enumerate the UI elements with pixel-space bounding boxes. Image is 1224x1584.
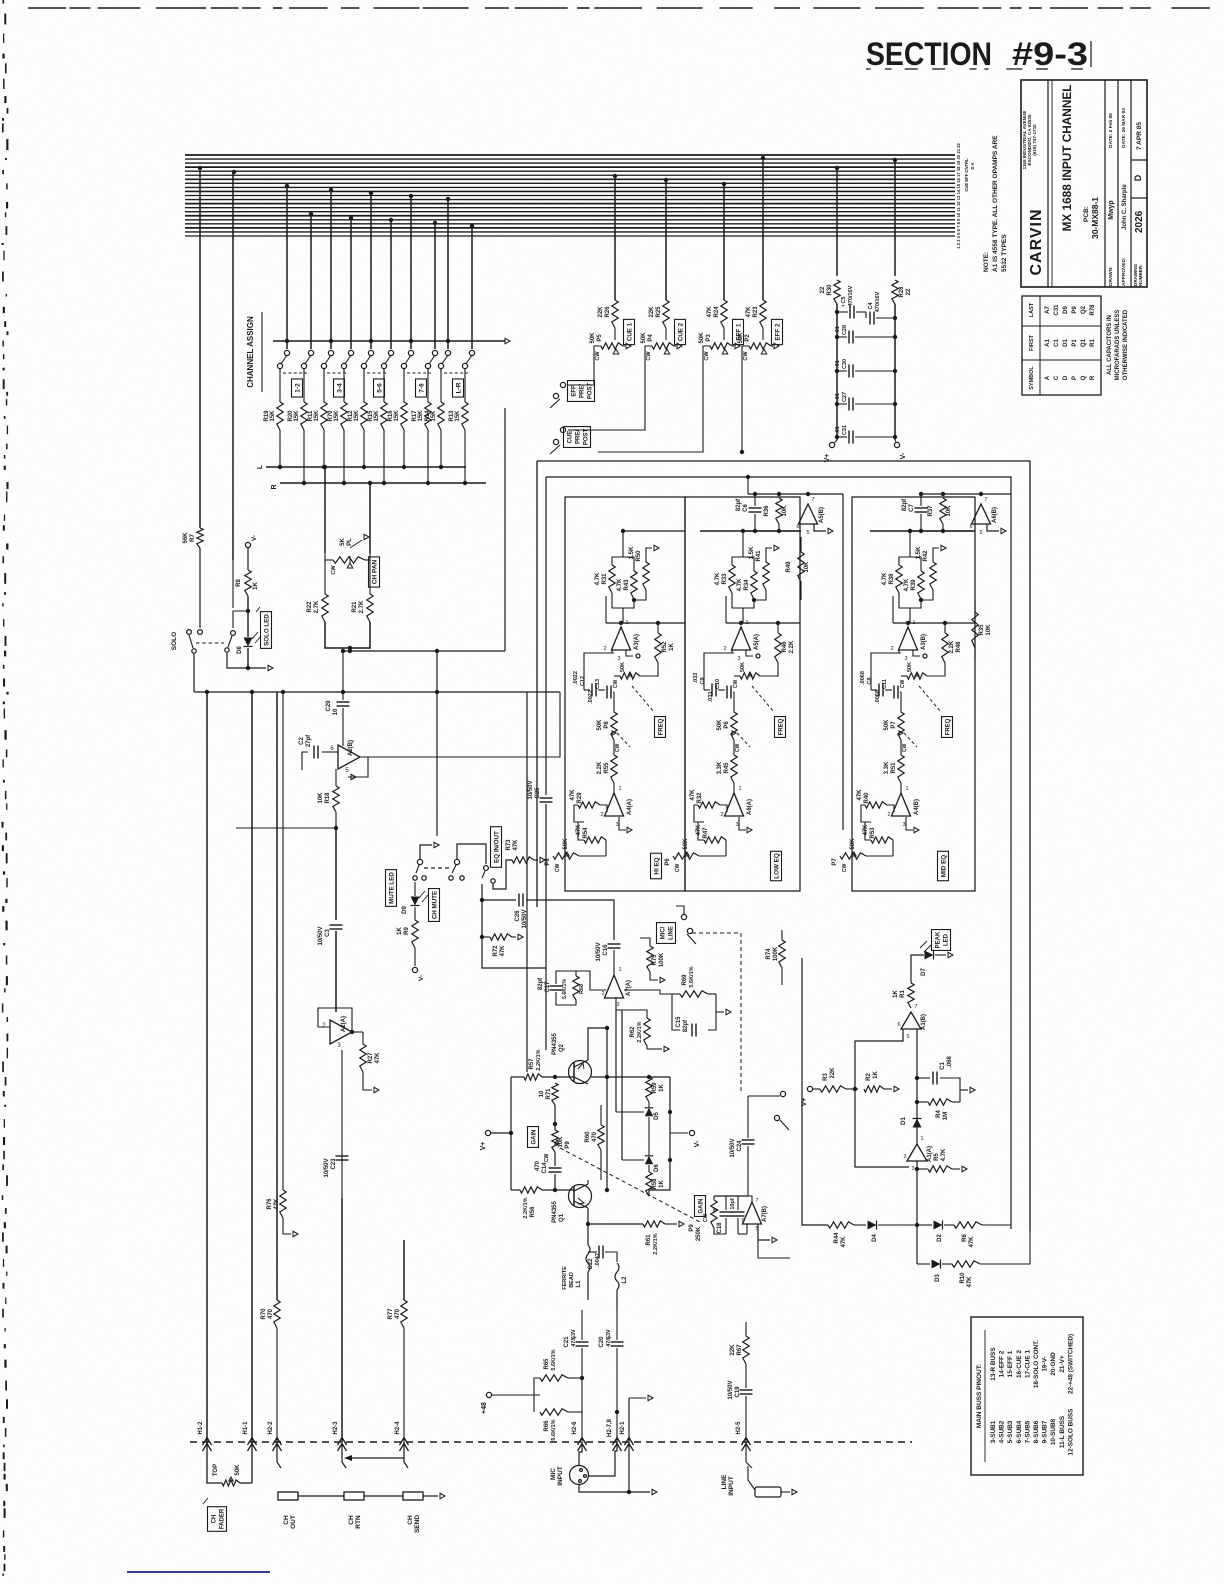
- op-amp A1(B): [901, 1012, 921, 1029]
- svg-text:CW: CW: [704, 351, 710, 361]
- svg-text:50K: 50K: [717, 719, 723, 731]
- svg-text:47K: 47K: [863, 824, 869, 836]
- svg-text:SOLO: SOLO: [171, 632, 178, 650]
- resistor R71 10: [552, 1083, 558, 1105]
- potentiometer FREQ trim HI EQ: [620, 673, 640, 679]
- svg-text:1K: 1K: [659, 1179, 665, 1187]
- svg-text:82pf: 82pf: [538, 977, 544, 990]
- capacitor C22 .0047: [598, 1246, 600, 1259]
- resistor R5 4.7K: [917, 1168, 928, 1170]
- svg-text:5-SUB3: 5-SUB3: [1007, 1420, 1014, 1443]
- switch S2 (3-4): [328, 350, 333, 355]
- led D9 (mute): [411, 897, 420, 906]
- capacitor C2 27pf: [313, 746, 315, 759]
- svg-text:15K: 15K: [334, 410, 340, 422]
- svg-text:CW: CW: [646, 351, 652, 361]
- svg-text:A1(A): A1(A): [927, 1146, 933, 1162]
- label box LOW EQ: [771, 851, 782, 880]
- svg-text:.0047: .0047: [595, 1253, 601, 1267]
- svg-text:.0022: .0022: [588, 690, 594, 704]
- resistor R53 47K: [871, 837, 893, 843]
- svg-text:V-: V-: [418, 975, 425, 981]
- svg-text:7: 7: [984, 497, 987, 503]
- svg-text:C31: C31: [842, 425, 848, 435]
- svg-text:P8: P8: [604, 721, 610, 729]
- wire: solo switch outputs: [246, 666, 250, 670]
- svg-text:R30: R30: [827, 284, 833, 296]
- label box CH MUTE: [429, 889, 440, 922]
- svg-text:LAST: LAST: [1029, 302, 1035, 317]
- potentiometer P8 50K: [613, 692, 615, 712]
- transistor Q1 PN4355: [569, 1185, 592, 1208]
- svg-text:CW: CW: [544, 1154, 550, 1163]
- svg-text:6: 6: [897, 1022, 900, 1028]
- svg-text:2: 2: [903, 1154, 906, 1160]
- legend box MAIN BUSS PINOUT: [971, 1317, 1083, 1475]
- assign switch label L-R: [453, 379, 464, 397]
- wire: channel assign buss tap 8: [433, 221, 437, 225]
- svg-text:PN4355: PN4355: [552, 1032, 558, 1054]
- wire: gain bracket: [510, 1077, 512, 1190]
- wire: eff1 send tap: [722, 182, 726, 186]
- svg-text:1: 1: [618, 786, 621, 792]
- op-amp A7(B): [743, 1202, 762, 1224]
- resistor R24 47K: [721, 300, 727, 328]
- svg-text:#9-3: #9-3: [1012, 36, 1088, 72]
- resistor R75 100K: [647, 946, 653, 972]
- svg-text:R21: R21: [352, 601, 358, 613]
- svg-text:R31: R31: [602, 573, 608, 585]
- svg-text:15K: 15K: [394, 410, 400, 422]
- svg-text:PRE/: PRE/: [580, 384, 586, 398]
- main buss (22 horizontal wires): [185, 154, 955, 156]
- svg-text:22-+48 (SWITCHED): 22-+48 (SWITCHED): [1067, 1334, 1074, 1394]
- svg-text:P9: P9: [565, 1141, 571, 1149]
- diode D6: [645, 1156, 653, 1164]
- svg-text:C5: C5: [841, 296, 847, 303]
- wire: MID EQ input rail: [908, 530, 975, 532]
- svg-text:MUTE LED: MUTE LED: [389, 872, 396, 904]
- svg-text:4.7K: 4.7K: [882, 572, 888, 585]
- svg-text:LINE: LINE: [721, 1474, 728, 1489]
- diode D2: [934, 1221, 943, 1230]
- capacitor C17 82pf: [550, 985, 563, 987]
- label box PEAK LED: [932, 930, 951, 951]
- svg-text:15K: 15K: [294, 410, 300, 422]
- op-amp A6(B): [972, 504, 991, 524]
- svg-text:C13: C13: [595, 679, 601, 689]
- svg-text:PCB:: PCB:: [1083, 206, 1090, 222]
- resistor R69 5.6K/1%: [680, 991, 708, 997]
- svg-text:50K: 50K: [597, 719, 603, 731]
- wire: solo cont drop: [232, 560, 234, 608]
- svg-text:50K: 50K: [740, 662, 746, 672]
- svg-text:.033: .033: [693, 673, 699, 684]
- resistor R70 470: [274, 1300, 280, 1328]
- wire: A1B pin5 down: [916, 1029, 918, 1144]
- svg-text:D9: D9: [1063, 306, 1069, 314]
- svg-text:CUE: CUE: [568, 431, 574, 444]
- resistor 2.2K R48: [942, 633, 948, 663]
- svg-text:R36: R36: [764, 505, 770, 517]
- svg-text:2: 2: [603, 646, 606, 652]
- resistor R11 15K: [323, 369, 325, 402]
- svg-text:50K: 50K: [738, 332, 744, 344]
- svg-text:DRAWN:: DRAWN:: [1108, 266, 1114, 286]
- svg-text:10/50V: 10/50V: [318, 926, 324, 945]
- label box MID EQ: [938, 851, 949, 880]
- label box CUE PRE/POST: [564, 427, 591, 448]
- svg-text:DATE: 26 MAR 84: DATE: 26 MAR 84: [1121, 108, 1127, 148]
- wire: A2B to eq feed: [527, 692, 560, 1072]
- svg-text:2.7K: 2.7K: [314, 600, 320, 613]
- svg-text:A7: A7: [1045, 306, 1051, 314]
- wire: summing rail A6B: [921, 493, 1011, 495]
- op-amp A2(B): [338, 745, 360, 769]
- svg-text:C30: C30: [842, 359, 848, 369]
- svg-text:1K: 1K: [659, 1083, 665, 1091]
- svg-text:FREQ: FREQ: [779, 718, 785, 735]
- op-amp A4(A): [605, 793, 624, 816]
- svg-text:50K: 50K: [850, 838, 856, 850]
- svg-text:4.7K: 4.7K: [904, 578, 910, 591]
- assign switch label 7-8: [416, 379, 427, 397]
- svg-text:R52: R52: [662, 641, 668, 653]
- svg-text:SOLO LED: SOLO LED: [264, 614, 271, 646]
- wire: A1B pin6 loop: [855, 1029, 909, 1167]
- svg-text:ALL CAPACITORS IN: ALL CAPACITORS IN: [1107, 315, 1113, 375]
- svg-text:3: 3: [617, 656, 620, 662]
- svg-text:TOP: TOP: [213, 1464, 219, 1476]
- svg-text:LINE: LINE: [669, 926, 675, 940]
- switch S1 (1-2): [284, 350, 289, 355]
- svg-text:CH: CH: [407, 1515, 414, 1525]
- resistor R2 1K: [864, 1086, 884, 1092]
- svg-text:R62: R62: [630, 1026, 636, 1038]
- svg-text:3-4: 3-4: [337, 383, 344, 393]
- svg-text:5-6: 5-6: [377, 383, 384, 393]
- svg-text:C12: C12: [580, 676, 586, 686]
- svg-text:PRE/: PRE/: [576, 430, 582, 444]
- capacitor C31 .01: [837, 436, 847, 438]
- svg-text:19-V-: 19-V-: [1042, 1356, 1049, 1371]
- svg-text:P3: P3: [706, 334, 712, 342]
- resistor R27 47K: [362, 1032, 364, 1044]
- label box EQ IN/OUT: [491, 827, 502, 868]
- svg-text:R49: R49: [786, 561, 792, 573]
- wire: summing rail A5B: [748, 493, 843, 495]
- wire: V+ rail: [836, 304, 838, 440]
- svg-text:10K: 10K: [986, 624, 992, 636]
- label box CUE 2: [675, 319, 686, 344]
- svg-text:R53: R53: [870, 827, 876, 839]
- potentiometer FREQ trim LOW EQ: [740, 673, 760, 679]
- wire: ch out run: [276, 692, 278, 1300]
- svg-text:R14: R14: [425, 410, 431, 422]
- capacitor C1 .068: [915, 1076, 919, 1080]
- svg-text:3: 3: [904, 656, 907, 662]
- wire: eff2 send tap: [761, 156, 765, 160]
- svg-text:470/16V: 470/16V: [848, 285, 854, 306]
- wire: A2B output: [348, 757, 368, 777]
- op-amp A7(A): [605, 975, 624, 998]
- svg-text:5.6K/1%: 5.6K/1%: [562, 979, 568, 999]
- resistor R43 4.7K: [631, 571, 637, 599]
- resistor R20 15K: [303, 369, 305, 402]
- svg-text:R20: R20: [288, 410, 294, 422]
- svg-text:C2: C2: [299, 737, 305, 745]
- svg-text:27pf: 27pf: [306, 734, 312, 747]
- svg-text:10K: 10K: [804, 561, 810, 573]
- wire: cue1 send tap: [613, 174, 617, 178]
- svg-text:.01: .01: [835, 393, 841, 401]
- svg-text:A1: A1: [1045, 339, 1051, 347]
- svg-text:CW: CW: [613, 680, 619, 689]
- wire: channel assign buss tap 9: [446, 197, 450, 201]
- capacitor 10pf: [732, 1211, 745, 1213]
- label box MUTE LED: [386, 870, 397, 907]
- svg-text:18-SOLO CONT.: 18-SOLO CONT.: [1033, 1340, 1040, 1389]
- svg-text:A4(B): A4(B): [914, 799, 920, 815]
- svg-text:SECTION: SECTION: [866, 36, 992, 72]
- svg-text:C23: C23: [331, 1158, 337, 1170]
- svg-text:R43: R43: [624, 579, 630, 591]
- svg-text:R33: R33: [722, 573, 728, 585]
- resistor R32 47K: [698, 802, 720, 808]
- svg-text:A5(B): A5(B): [819, 507, 825, 523]
- wire: A1A pin3 down: [916, 1161, 918, 1264]
- wire: channel assign buss tap 4: [349, 216, 353, 220]
- resistor R65 5.6K/1%: [540, 1375, 568, 1381]
- resistor R35 10K: [972, 612, 978, 648]
- svg-text:R29: R29: [577, 792, 583, 804]
- svg-text:FERRITE: FERRITE: [562, 1266, 568, 1290]
- svg-text:C6: C6: [743, 504, 749, 512]
- svg-text:47K: 47K: [841, 1236, 847, 1248]
- page edge artifact: top dashed scan line: [28, 7, 66, 9]
- svg-text:P7: P7: [891, 721, 897, 729]
- svg-text:+48: +48: [481, 1402, 488, 1414]
- svg-text:NUMBER:: NUMBER:: [1138, 264, 1143, 286]
- capacitor C10 .033: [718, 689, 725, 691]
- svg-text:1: 1: [738, 786, 741, 792]
- wire: Q1 emitter rail: [588, 1223, 643, 1225]
- wire: D6 tap: [622, 1159, 644, 1161]
- svg-text:.0068: .0068: [875, 690, 881, 704]
- svg-text:50K: 50K: [620, 662, 626, 672]
- svg-text:R72: R72: [493, 945, 499, 957]
- svg-text:R74: R74: [766, 948, 772, 960]
- resistor R62 2.2K/1%: [644, 1018, 650, 1046]
- svg-text:R7: R7: [190, 534, 196, 542]
- svg-text:D6: D6: [654, 1164, 660, 1172]
- svg-text:1: 1: [625, 620, 628, 626]
- jack CH SEND: [403, 1492, 423, 1500]
- capacitor C4 470/16V: [865, 312, 867, 318]
- svg-text:SEND: SEND: [414, 1515, 421, 1533]
- svg-text:R57: R57: [529, 1058, 535, 1070]
- wire: block feed vertical: [842, 494, 844, 830]
- svg-text:H2-3: H2-3: [333, 1421, 339, 1435]
- wire: solo cont tap: [232, 170, 236, 174]
- wire: pan output rail: [343, 650, 505, 652]
- op-amp A2(A): [330, 1020, 352, 1044]
- capacitor C16 10/50V: [608, 943, 621, 945]
- label box HI EQ: [651, 853, 662, 879]
- svg-text:3.3K: 3.3K: [884, 761, 890, 774]
- svg-text:5K: 5K: [340, 537, 346, 545]
- capacitor C9 .033: [704, 689, 710, 691]
- switch S3 (5-6): [368, 350, 373, 355]
- svg-text:R71: R71: [546, 1088, 552, 1100]
- svg-text:OUT: OUT: [290, 1515, 297, 1529]
- svg-text:R46: R46: [782, 641, 788, 653]
- wire: eq section outer box: [537, 461, 1030, 1231]
- svg-text:2.2K: 2.2K: [597, 761, 603, 774]
- svg-text:C1: C1: [1054, 339, 1060, 347]
- svg-text:PN4355: PN4355: [552, 1200, 558, 1222]
- svg-text:5: 5: [806, 530, 809, 536]
- svg-text:CW: CW: [842, 864, 848, 873]
- svg-text:R38: R38: [889, 573, 895, 585]
- inductor L2: [615, 1263, 619, 1290]
- wire: mic/line gang dashed: [692, 933, 741, 1092]
- wire: out-rtn chain: [298, 1495, 344, 1497]
- svg-text:D7: D7: [921, 968, 927, 976]
- svg-text:A2(A): A2(A): [341, 1016, 347, 1032]
- svg-text:CW: CW: [733, 680, 739, 689]
- svg-text:4.7K: 4.7K: [617, 578, 623, 591]
- svg-text:1-2: 1-2: [295, 383, 302, 393]
- svg-text:17-CUE 1: 17-CUE 1: [1024, 1350, 1031, 1379]
- eq block box MID EQ: [852, 497, 975, 891]
- capacitor C6 82pf: [754, 494, 756, 506]
- resistor R42 1.5K: [930, 562, 936, 590]
- svg-text:V-: V-: [900, 452, 907, 459]
- capacitor C13 .0022: [598, 689, 605, 691]
- resistor R21 2.7K: [369, 560, 371, 594]
- svg-text:5532 TYPES: 5532 TYPES: [1001, 234, 1008, 272]
- svg-text:22K: 22K: [649, 306, 655, 318]
- svg-text:INPUT: INPUT: [728, 1476, 735, 1496]
- svg-text:R78: R78: [1090, 304, 1096, 316]
- svg-text:1K: 1K: [397, 926, 403, 934]
- svg-text:C28: C28: [842, 325, 848, 335]
- svg-text:1.5K: 1.5K: [916, 546, 922, 559]
- svg-text:R37: R37: [928, 505, 934, 517]
- diode D4: [854, 1224, 866, 1226]
- resistor R49 10K: [798, 552, 804, 582]
- label box FREQ LOW EQ: [775, 717, 786, 738]
- svg-text:R25: R25: [656, 306, 662, 318]
- svg-text:P1: P1: [1072, 339, 1078, 347]
- svg-text:R24: R24: [714, 306, 720, 318]
- resistor R50 1.5K: [643, 562, 649, 590]
- svg-text:15K: 15K: [418, 410, 424, 422]
- svg-text:Q1: Q1: [559, 1213, 565, 1222]
- svg-text:9-SUB7: 9-SUB7: [1042, 1420, 1049, 1443]
- capacitor C15 82pf: [691, 1024, 693, 1037]
- svg-text:10/50V: 10/50V: [324, 1158, 330, 1177]
- resistor R8 1K: [245, 570, 251, 596]
- resistor R6 47K: [954, 1222, 982, 1228]
- svg-text:10K: 10K: [558, 1136, 564, 1148]
- svg-text:EQ IN/OUT: EQ IN/OUT: [494, 831, 501, 863]
- svg-text:FREQ: FREQ: [946, 718, 952, 735]
- svg-text:CW: CW: [902, 744, 908, 753]
- resistor R52 1K: [655, 633, 661, 663]
- mic input connector: [570, 1466, 589, 1485]
- potentiometer P6 50K: [733, 692, 735, 712]
- capacitor C18: [720, 1211, 733, 1213]
- svg-text:2.2K/1%: 2.2K/1%: [637, 1021, 643, 1042]
- svg-text:6-SUB4: 6-SUB4: [1016, 1420, 1023, 1443]
- svg-text:15K: 15K: [270, 410, 276, 422]
- resistor R17 15K: [427, 369, 429, 402]
- svg-text:R6: R6: [962, 1234, 968, 1242]
- svg-text:D8: D8: [237, 646, 243, 654]
- svg-text:1: 1: [920, 1136, 923, 1142]
- wire: pan bottom rail: [325, 622, 370, 648]
- svg-text:50K: 50K: [641, 332, 647, 344]
- wire: sum rail 2: [917, 1263, 930, 1265]
- svg-text:3: 3: [911, 1166, 914, 1172]
- svg-text:2.2K: 2.2K: [949, 640, 955, 653]
- resistor R26 22K: [612, 300, 618, 328]
- potentiometer CH FADER 50K: [207, 1442, 222, 1483]
- svg-text:R8: R8: [236, 579, 242, 587]
- svg-text:82pf: 82pf: [683, 1019, 689, 1032]
- resistor R74 100K: [779, 940, 785, 968]
- wire: A5B in/out: [700, 530, 801, 532]
- label box MIC/LINE: [657, 923, 676, 944]
- svg-text:470: 470: [535, 1160, 541, 1171]
- resistor R12 15K: [363, 369, 365, 402]
- resistor R13 15K: [464, 369, 466, 402]
- resistor R47 47K: [704, 837, 726, 843]
- svg-text:3: 3: [735, 822, 738, 828]
- svg-text:L-R: L-R: [456, 382, 463, 393]
- svg-text:D5: D5: [654, 1112, 660, 1120]
- switch ch mute: [417, 859, 422, 864]
- svg-text:R: R: [271, 484, 278, 489]
- svg-text:3: 3: [737, 656, 740, 662]
- switch eq in/out: [454, 859, 459, 864]
- potentiometer P7 50K: [900, 692, 902, 712]
- svg-text:D: D: [1063, 375, 1069, 380]
- svg-text:6: 6: [796, 524, 799, 530]
- svg-text:7-8: 7-8: [419, 383, 426, 393]
- resistor R19 15K: [279, 369, 281, 402]
- svg-text:10pf: 10pf: [730, 1198, 736, 1209]
- resistor R61 2.2K/1%: [643, 1221, 665, 1227]
- svg-text:7-SUB5: 7-SUB5: [1024, 1420, 1031, 1443]
- wire: rtn-send chain: [364, 1495, 403, 1497]
- svg-text:2026: 2026: [1134, 210, 1145, 233]
- op-amp A5(B): [799, 504, 818, 524]
- svg-text:R16: R16: [388, 410, 394, 422]
- resistor R22 2.7K: [324, 560, 326, 594]
- switch line pad: [780, 1091, 785, 1096]
- svg-text:H2-6: H2-6: [572, 1421, 578, 1435]
- resistor R57 2.2K/1%: [511, 1076, 524, 1078]
- op-amp A3(A): [612, 627, 631, 650]
- title block frame: [1021, 80, 1147, 287]
- svg-text:A1 IS 4558 TYPE. ALL OTHER OPA: A1 IS 4558 TYPE. ALL OTHER OPAMPS ARE: [992, 135, 999, 272]
- svg-text:14-EFF 2: 14-EFF 2: [999, 1350, 1006, 1377]
- svg-text:R1: R1: [1090, 339, 1096, 347]
- svg-text:47K: 47K: [513, 839, 519, 851]
